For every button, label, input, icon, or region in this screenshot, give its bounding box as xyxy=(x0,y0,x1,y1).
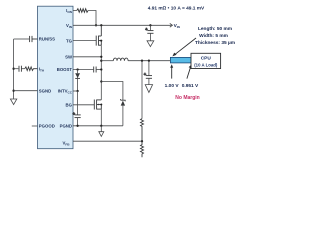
svg-text:Length: 50 mm: Length: 50 mm xyxy=(198,26,232,32)
diode D1 schottky catch xyxy=(121,99,126,126)
wire PGND row xyxy=(73,125,123,127)
wire BG row xyxy=(73,104,94,106)
resistor R-FB-bottom xyxy=(141,141,144,157)
wire SW to inductor xyxy=(101,60,113,62)
node boost cap to SW junction xyxy=(100,68,102,70)
svg-text:Width: 5 mm: Width: 5 mm xyxy=(199,33,228,39)
node diode branch junction xyxy=(100,80,102,82)
wire ION to VIN row xyxy=(88,11,96,26)
svg-text:BOOST: BOOST xyxy=(57,67,73,72)
wire VIN row xyxy=(73,24,171,26)
node FB divider tap junction xyxy=(141,60,143,62)
svg-text:4.91 mΩ • 10 A = 49.1 mV: 4.91 mΩ • 10 A = 49.1 mV xyxy=(148,5,205,11)
CPU load box xyxy=(191,53,221,68)
node ITH-rail junction xyxy=(12,68,14,70)
wire left rail xyxy=(13,39,15,99)
node COUT junction xyxy=(148,60,150,62)
capacitor COUT xyxy=(144,61,152,85)
node inductor junction xyxy=(100,60,102,62)
wire M2 source to PGND xyxy=(100,109,102,126)
wire SW row xyxy=(73,56,101,58)
svg-text:0.951 V: 0.951 V xyxy=(182,83,199,89)
node M1 drain junction xyxy=(100,24,102,26)
node BOOST junction xyxy=(76,68,78,70)
ground PGND arrow xyxy=(99,126,104,137)
diode D2 bootstrap BOOST to INTVCC xyxy=(75,70,80,92)
node M2 source to PGND xyxy=(100,125,102,127)
capacitor C-INTVCC xyxy=(73,91,81,126)
node M2 body tie xyxy=(100,104,102,106)
resistor R-ION xyxy=(77,9,88,13)
wire RUN/SS row xyxy=(14,38,29,40)
node M1 body tie xyxy=(100,40,102,42)
svg-text:No Margin: No Margin xyxy=(175,95,199,101)
svg-text:CPU: CPU xyxy=(201,56,212,62)
wire SGND row xyxy=(14,90,38,92)
wire SW node vertical xyxy=(100,45,102,99)
inductor L1 xyxy=(113,58,128,61)
capacitor C-ITH xyxy=(14,66,25,72)
svg-text:RUN/SS: RUN/SS xyxy=(39,37,55,42)
node CIN junction xyxy=(149,24,151,26)
node ION/VIN junction xyxy=(95,24,97,26)
ground SGND rail xyxy=(10,99,16,105)
node FB junction xyxy=(141,140,143,142)
arrow at 1.00V trace end xyxy=(170,64,173,78)
capacitor CIN xyxy=(145,25,153,41)
wire INTVCC pin stub xyxy=(73,90,78,92)
svg-text:PGND: PGND xyxy=(60,124,72,129)
wire TG row xyxy=(73,40,96,42)
svg-text:PGOOD: PGOOD xyxy=(39,124,55,129)
wire VOUT row xyxy=(128,60,170,62)
ground COUT xyxy=(145,85,152,93)
svg-text:TG: TG xyxy=(66,38,73,43)
svg-text:1.00 V: 1.00 V xyxy=(165,83,180,89)
svg-text:SGND: SGND xyxy=(39,88,51,93)
svg-text:SW: SW xyxy=(65,55,73,60)
wire PGOOD stub xyxy=(32,125,38,127)
svg-text:(10 A Load): (10 A Load) xyxy=(194,62,218,67)
PCB trace parasitic resistance xyxy=(170,57,193,63)
node INTVCC cap to PGND xyxy=(76,125,78,127)
resistor R-ITH xyxy=(25,67,38,71)
transistor M1 top NMOS xyxy=(96,25,101,45)
node INTVCC junction xyxy=(76,90,78,92)
ground CIN xyxy=(147,41,154,47)
capacitor CB boost xyxy=(94,67,102,73)
svg-text:BG: BG xyxy=(66,103,73,108)
capacitor C-SS on RUN/SS xyxy=(30,36,38,42)
wire ION pin stub xyxy=(73,10,77,12)
terminal VIN arrow xyxy=(170,23,173,27)
pointer arrow to trace xyxy=(172,38,196,56)
op-amp U1 controller IC body xyxy=(38,6,74,149)
svg-text:Thickness: 35 µm: Thickness: 35 µm xyxy=(195,40,235,46)
resistor R-FB-top xyxy=(141,119,144,142)
arrow at 0.951V trace end xyxy=(187,65,192,79)
wire FB divider vertical xyxy=(141,61,143,119)
wire diode branch xyxy=(101,82,123,101)
wire BOOST row xyxy=(73,69,93,71)
node SGND-rail junction xyxy=(12,90,14,92)
node SW pin junction xyxy=(100,56,102,58)
transistor M2 bottom NMOS xyxy=(94,99,101,109)
wire VFB row xyxy=(73,140,142,142)
